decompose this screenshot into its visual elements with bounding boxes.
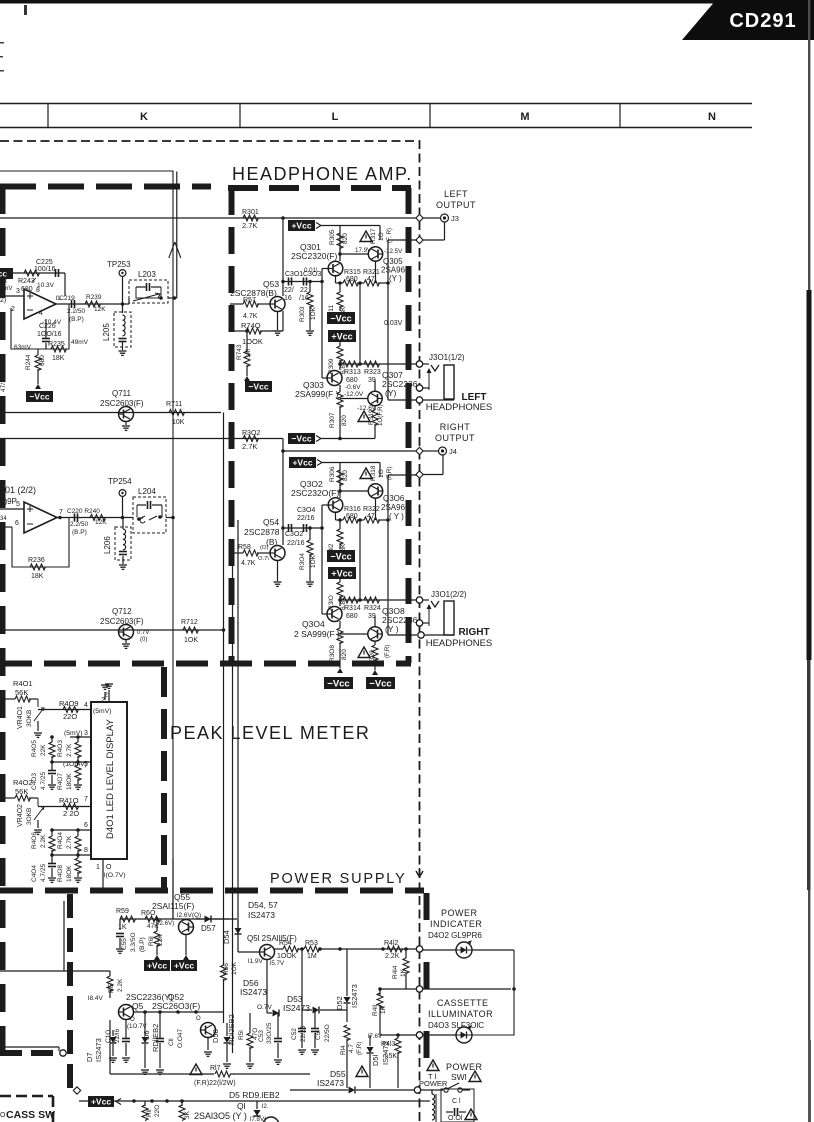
R740 resistor xyxy=(230,311,283,346)
svg-text:C l: C l xyxy=(452,1098,461,1105)
J301(2/2) label xyxy=(431,590,467,599)
svg-text:R236: R236 xyxy=(28,557,45,564)
R11 220 xyxy=(142,1101,161,1121)
svg-text:4.7K: 4.7K xyxy=(243,313,258,320)
R403 2.7K xyxy=(50,735,81,762)
J301(1/2) label xyxy=(429,353,465,362)
grid letter N xyxy=(708,111,716,123)
svg-text:R4l2: R4l2 xyxy=(384,940,399,947)
Q712 voltage 0.7V xyxy=(137,630,149,643)
voltage 0.01V xyxy=(304,267,318,274)
svg-text:R4O9: R4O9 xyxy=(59,699,79,708)
svg-text:Ql: Ql xyxy=(237,1101,246,1111)
svg-text:( Y ): ( Y ) xyxy=(389,512,404,521)
R324 39 xyxy=(364,597,381,620)
-Vcc box below R244 xyxy=(26,384,53,402)
grid tick 4 xyxy=(619,104,621,128)
svg-text:22O: 22O xyxy=(63,712,77,721)
voltage 0.03V xyxy=(384,320,403,327)
svg-text:22: 22 xyxy=(300,287,308,294)
svg-text:LEFT: LEFT xyxy=(444,189,468,199)
bottom left tick xyxy=(0,1112,6,1119)
R711 resistor xyxy=(166,401,185,426)
R12 3K xyxy=(179,1101,191,1121)
Q304 transistor xyxy=(327,600,342,622)
power border circle C xyxy=(416,1032,422,1038)
op-amp2 output wire xyxy=(57,516,133,520)
Q5 labels xyxy=(126,992,200,1011)
L204 capacitor xyxy=(137,501,162,518)
svg-text:0.7V: 0.7V xyxy=(137,630,149,636)
op-amp pin 8 label xyxy=(36,287,40,294)
svg-text:680: 680 xyxy=(346,377,358,384)
svg-text:47/16 1.5K: 47/16 1.5K xyxy=(0,360,7,392)
grid tick 2 xyxy=(239,104,241,128)
svg-text:1O: 1O xyxy=(378,469,385,478)
C304 C302 labels xyxy=(285,507,315,547)
R239 resistor xyxy=(85,294,106,313)
svg-text:Q712: Q712 xyxy=(112,607,132,616)
R712 node xyxy=(222,628,226,632)
warning triangle R318 xyxy=(360,468,372,479)
svg-text:1O: 1O xyxy=(378,232,385,241)
LED D403 xyxy=(423,1026,472,1043)
svg-text:22O: 22O xyxy=(154,1105,161,1117)
C225 capacitor xyxy=(34,259,59,277)
svg-text:POWER SUPPLY: POWER SUPPLY xyxy=(270,871,407,887)
left edge label n2 xyxy=(0,774,4,781)
svg-text:TP254: TP254 xyxy=(108,477,132,486)
C301 capacitor xyxy=(289,278,292,286)
svg-text:C3O1: C3O1 xyxy=(285,271,303,278)
svg-text:1OK: 1OK xyxy=(184,637,198,644)
svg-text:POWER: POWER xyxy=(419,1079,448,1088)
Q51 transistor xyxy=(238,935,275,1013)
svg-text:C53: C53 xyxy=(258,1030,265,1042)
right channel input wire (R302) xyxy=(0,438,283,440)
T1 transformer coil xyxy=(432,1090,436,1122)
D401 label xyxy=(105,718,116,839)
svg-text:R4O7: R4O7 xyxy=(57,773,64,790)
Q1 2SA1305 labels xyxy=(194,1101,247,1121)
op-amp IC201b feedback loop xyxy=(12,518,69,568)
Q306 transistor xyxy=(368,484,382,498)
C11 0.047 xyxy=(156,1012,184,1068)
svg-text:R239: R239 xyxy=(86,294,102,301)
R302 resistor xyxy=(242,430,260,451)
svg-text:D54, 57: D54, 57 xyxy=(248,900,278,910)
R57 resistor xyxy=(230,297,270,320)
C219 capacitor xyxy=(56,295,85,323)
svg-text:22/5O: 22/5O xyxy=(324,1024,331,1042)
svg-text:D4O1 LED LEVEL DISPLAY: D4O1 LED LEVEL DISPLAY xyxy=(105,718,116,839)
left OUTPUT node diamond xyxy=(416,214,423,221)
svg-text:RIGHT: RIGHT xyxy=(440,422,471,432)
svg-text:680: 680 xyxy=(346,513,358,520)
svg-text:L203: L203 xyxy=(138,270,156,279)
svg-text:L204: L204 xyxy=(138,487,156,496)
wire to J4 xyxy=(423,450,438,452)
Q53 transistor xyxy=(270,297,285,312)
svg-text:POWER: POWER xyxy=(446,1062,483,1072)
C403 4.7/25 xyxy=(31,762,56,790)
+Vcc box bottom xyxy=(88,1096,121,1107)
svg-text:(O): (O) xyxy=(260,545,268,551)
svg-text:2.2K: 2.2K xyxy=(40,834,47,848)
TP253 test point xyxy=(107,260,131,304)
Q301 labels xyxy=(291,242,337,261)
Q302 labels xyxy=(291,479,339,498)
svg-text:2SC2878: 2SC2878 xyxy=(244,527,280,537)
svg-text:IS2473: IS2473 xyxy=(283,1003,310,1013)
svg-text:J3: J3 xyxy=(451,214,459,223)
L203 dashed box xyxy=(129,280,168,303)
svg-text:820: 820 xyxy=(341,415,348,426)
svg-text:D58: D58 xyxy=(211,1029,220,1043)
op-amp IC201a triangle xyxy=(24,289,56,319)
J301(1/2) connector circle bottom xyxy=(388,397,454,403)
R51 470 xyxy=(238,1013,259,1062)
R316 R322 labels xyxy=(344,506,380,520)
voltage 17.8V bottom xyxy=(250,1116,267,1122)
voltage label 63mV xyxy=(14,344,32,351)
svg-text:3K: 3K xyxy=(184,1110,191,1119)
power rail wire under D401 xyxy=(172,859,174,919)
svg-text:L205: L205 xyxy=(102,323,111,341)
svg-text:4: 4 xyxy=(39,310,43,317)
R309 6.8K xyxy=(328,342,347,374)
svg-text:6: 6 xyxy=(84,822,88,829)
voltage -0.6V xyxy=(345,384,361,391)
R15 2.2K xyxy=(107,971,124,998)
CASS SW box dashed top edge xyxy=(0,1095,53,1098)
C53 330/25 right xyxy=(258,1013,282,1058)
svg-text:5: 5 xyxy=(16,501,20,508)
+Vcc box power B xyxy=(171,955,197,971)
svg-text:−Vcc: −Vcc xyxy=(327,679,349,690)
svg-text:2: 2 xyxy=(11,306,15,313)
svg-text:2SAl3O5 (Y ): 2SAl3O5 (Y ) xyxy=(194,1111,247,1121)
+Vcc box power A xyxy=(144,955,170,971)
svg-text:C1O: C1O xyxy=(105,1030,112,1043)
svg-text:R74O: R74O xyxy=(241,321,261,330)
svg-text:(F.R)22(l/2W): (F.R)22(l/2W) xyxy=(194,1080,236,1087)
svg-text:D5l: D5l xyxy=(371,1054,380,1066)
grid tick 3 xyxy=(429,104,431,128)
left audio block heavy dashed left edge xyxy=(0,186,6,1050)
voltage (10.7V xyxy=(127,1017,147,1030)
R407 180K xyxy=(57,762,82,790)
L203 label xyxy=(138,270,156,279)
R53 1M xyxy=(297,940,320,960)
L204 dashed box xyxy=(133,497,166,533)
svg-text:R4O2: R4O2 xyxy=(13,778,33,787)
R61 22K xyxy=(148,917,164,955)
svg-text:R4O1: R4O1 xyxy=(13,679,33,688)
HEADPHONE AMP. title xyxy=(232,164,413,184)
Q55 transistor xyxy=(179,920,194,935)
pin6 label xyxy=(50,822,91,832)
R308 820 vertical xyxy=(329,621,348,668)
L206 dashed box xyxy=(115,527,131,560)
R58 resistor xyxy=(230,544,270,567)
D5 wire xyxy=(79,1100,430,1102)
svg-text:Q3O6: Q3O6 xyxy=(383,494,405,503)
Q711 feed vertical wire xyxy=(223,413,225,959)
svg-text:D4O2 GL9PR6: D4O2 GL9PR6 xyxy=(428,931,482,940)
voltage -12.6V xyxy=(357,405,377,412)
-Vcc box below R743 xyxy=(244,376,272,392)
D5 RD9.IEB2 label xyxy=(229,1090,280,1100)
power supply box heavy dashed top edge xyxy=(0,888,424,894)
svg-text:1OK: 1OK xyxy=(310,554,317,568)
D59 RD12EB2 xyxy=(224,1014,237,1062)
svg-text:Q711: Q711 xyxy=(112,389,132,398)
CASS SW label xyxy=(6,1109,55,1121)
Q5 cluster wires xyxy=(134,1010,223,1014)
svg-text:IS2473: IS2473 xyxy=(350,984,359,1008)
bottom rail wires xyxy=(132,1099,184,1103)
svg-text:22K: 22K xyxy=(40,744,47,756)
svg-text:-0.6V: -0.6V xyxy=(345,384,361,391)
voltage -12.0V xyxy=(344,391,364,398)
Q55 labels xyxy=(152,892,195,911)
D53 IS2473 xyxy=(283,949,347,1014)
svg-text:4.7/25: 4.7/25 xyxy=(40,864,47,882)
node R302/Q54 branch xyxy=(281,449,285,453)
Q306 labels xyxy=(381,494,410,521)
svg-text:CASSETTE: CASSETTE xyxy=(437,998,489,1008)
J4 lower diamond xyxy=(416,455,443,478)
wire into notch circle xyxy=(0,1047,59,1051)
L205 ground xyxy=(119,351,127,355)
svg-text:−Vcc: −Vcc xyxy=(248,382,268,392)
svg-text:O.O47: O.O47 xyxy=(177,1028,184,1048)
svg-text:R58: R58 xyxy=(238,544,251,551)
-Vcc arrow left xyxy=(337,668,343,673)
svg-text:l8.4V: l8.4V xyxy=(88,995,103,1002)
+Vcc box (cut at left edge) xyxy=(0,268,13,279)
svg-text:Rl7: Rl7 xyxy=(210,1065,221,1072)
svg-text:(5mV): (5mV) xyxy=(93,708,112,715)
L206 label xyxy=(103,536,112,554)
voltage 17.6V xyxy=(368,1033,383,1040)
L206 coil xyxy=(119,518,127,565)
svg-text:Q3O4: Q3O4 xyxy=(302,619,325,629)
svg-text:2: 2 xyxy=(0,774,4,781)
svg-text:R711: R711 xyxy=(166,401,182,408)
D56 IS2473 labels xyxy=(240,978,267,997)
power switch SW1 xyxy=(421,1083,470,1092)
Q306 output rail xyxy=(388,475,417,635)
J3 lower diamond xyxy=(416,222,445,244)
svg-text:34: 34 xyxy=(0,516,7,522)
svg-text:R4l4: R4l4 xyxy=(392,965,399,979)
Q302 collector-base wires xyxy=(320,489,368,614)
R56 10K xyxy=(221,958,239,1023)
svg-text:2 2O: 2 2O xyxy=(63,809,79,818)
power border circle A xyxy=(416,946,422,952)
svg-text:+Vcc: +Vcc xyxy=(291,221,311,231)
svg-text:1O(F,R): 1O(F,R) xyxy=(377,404,384,426)
pin2 ground xyxy=(101,685,109,704)
svg-text:HEADPHONES: HEADPHONES xyxy=(426,638,493,649)
-Vcc box left channel bottom xyxy=(288,433,321,444)
svg-text:7: 7 xyxy=(84,796,88,803)
svg-text:820: 820 xyxy=(342,470,349,481)
R408 180K xyxy=(57,855,82,882)
svg-text:Q54: Q54 xyxy=(263,517,279,527)
right channel signal rail jog xyxy=(282,439,284,452)
R323 39 xyxy=(364,361,381,384)
voltage 0.7V xyxy=(257,1004,272,1011)
svg-text:22/l6: 22/l6 xyxy=(114,1029,121,1043)
wire L203 to vertical bus xyxy=(129,296,177,304)
Q53 labels xyxy=(230,279,279,298)
Q58 transistor xyxy=(196,1016,216,1038)
T1 POWER label xyxy=(419,1072,448,1088)
+Vcc box left channel top xyxy=(288,220,321,231)
grid band bottom rule xyxy=(0,127,752,129)
Q54 labels xyxy=(244,517,280,547)
L206 ground xyxy=(119,565,127,569)
indicator loop wire xyxy=(423,950,516,1035)
R303 10K shunt xyxy=(299,282,317,331)
R240 resistor xyxy=(90,515,107,527)
svg-text:2SC2603(F): 2SC2603(F) xyxy=(100,399,144,408)
op-amp pin 4 label xyxy=(39,310,43,317)
svg-text:OUTPUT: OUTPUT xyxy=(435,433,475,443)
svg-text:R321: R321 xyxy=(363,269,380,276)
D401 display box xyxy=(91,702,127,859)
svg-text:R5l: R5l xyxy=(238,1030,245,1040)
svg-text:C3O2: C3O2 xyxy=(285,531,303,538)
L205 coil xyxy=(119,304,127,350)
J3 jack xyxy=(441,214,459,223)
svg-text:2): 2) xyxy=(0,297,6,304)
svg-text:R4O3: R4O3 xyxy=(57,740,64,757)
svg-text:2.7K: 2.7K xyxy=(242,442,257,451)
svg-text:HEADPHONE AMP.: HEADPHONE AMP. xyxy=(232,164,413,184)
Q53 emitter ground xyxy=(274,312,282,336)
warning triangle near C1 xyxy=(465,1109,477,1120)
wire to J3 xyxy=(423,217,440,219)
svg-text:R307: R307 xyxy=(329,412,336,428)
svg-text:C3O4: C3O4 xyxy=(297,507,315,514)
svg-text:5mV: 5mV xyxy=(0,286,12,292)
input pin label 3 xyxy=(16,288,20,295)
svg-text:K: K xyxy=(140,111,148,123)
R317 label xyxy=(370,228,393,244)
(5mV) pin3 label xyxy=(64,730,91,737)
svg-text:+Vcc: +Vcc xyxy=(174,961,194,971)
Q51 collector rail xyxy=(274,948,283,950)
R410 220 xyxy=(59,796,88,818)
svg-text:18OK: 18OK xyxy=(66,865,73,882)
D401 top ground pin xyxy=(104,684,113,702)
R411 1K xyxy=(372,987,387,1035)
svg-text:(B.P): (B.P) xyxy=(69,316,84,323)
+Vcc box mid right channel xyxy=(328,567,356,579)
Q307 transistor xyxy=(340,380,382,406)
power notch circle xyxy=(60,1050,66,1056)
J301(1/2) rail xyxy=(338,362,418,366)
peak level meter box heavy dashed right edge xyxy=(161,667,167,888)
power rail wire Q55 xyxy=(120,918,230,920)
Q54 base coupling wire xyxy=(281,526,322,530)
Q712 labels xyxy=(100,607,144,626)
svg-text:O: O xyxy=(0,527,5,533)
svg-text:22/16: 22/16 xyxy=(287,540,305,547)
voltage -12.5V xyxy=(384,248,403,255)
left block thin solid outline xyxy=(0,171,173,919)
svg-text:R303: R303 xyxy=(299,306,306,322)
svg-text:680: 680 xyxy=(346,613,358,620)
Q51 2SA labels xyxy=(247,934,297,965)
warning POWER SW1 labels xyxy=(427,1060,483,1082)
node at TP253 stem xyxy=(121,302,125,306)
headphone amp box heavy dashed left edge xyxy=(229,188,235,663)
POWER SUPPLY title xyxy=(270,871,407,887)
svg-text:8: 8 xyxy=(84,847,88,854)
svg-text:820: 820 xyxy=(341,649,348,660)
Q54 emitter ground xyxy=(274,561,282,587)
headphone amp box heavy dashed right edge xyxy=(406,188,412,663)
cassette illuminator feed wire xyxy=(380,1034,417,1036)
svg-text:18K: 18K xyxy=(31,573,44,580)
input label 55mV xyxy=(0,272,13,292)
svg-text:18OK: 18OK xyxy=(66,773,73,790)
svg-text:2.2/50: 2.2/50 xyxy=(70,521,88,528)
C404 4.7/25 xyxy=(31,855,56,882)
svg-text:TP253: TP253 xyxy=(107,260,131,269)
svg-text:1OOK: 1OOK xyxy=(277,953,297,960)
svg-text:4.7K: 4.7K xyxy=(241,560,256,567)
voltage label -10.4V xyxy=(42,319,62,326)
notch stub wire xyxy=(63,901,65,971)
svg-text:L206: L206 xyxy=(103,536,112,554)
D51 IS2473 xyxy=(367,1035,391,1088)
-Vcc box mid right channel xyxy=(327,550,355,562)
svg-text:8: 8 xyxy=(36,287,40,294)
svg-text:J3O1(2/2): J3O1(2/2) xyxy=(431,590,467,599)
-Vcc box left xyxy=(0,0,1,1)
svg-text:3: 3 xyxy=(84,730,88,737)
svg-text:R301: R301 xyxy=(242,209,259,216)
svg-text:l7.6V: l7.6V xyxy=(368,1033,383,1040)
svg-text:(F,R): (F,R) xyxy=(384,645,391,658)
R236 feedback resistor xyxy=(28,557,46,580)
svg-text:RIGHT: RIGHT xyxy=(458,627,489,638)
svg-text:(l2.6V): (l2.6V) xyxy=(156,920,174,927)
svg-text:O: O xyxy=(106,864,112,871)
svg-text:R3O4: R3O4 xyxy=(299,553,306,570)
svg-text:R59: R59 xyxy=(116,908,129,915)
power border circle D xyxy=(414,1087,420,1093)
(10mV) pin5 label xyxy=(50,760,91,768)
voltage 18.4V xyxy=(88,995,103,1002)
svg-text:22/: 22/ xyxy=(284,287,294,294)
Q711 labels xyxy=(100,389,144,408)
R743 1M vertical xyxy=(236,329,252,376)
R59 1K xyxy=(116,908,136,931)
svg-text:16: 16 xyxy=(284,295,292,302)
svg-text:CASS SW: CASS SW xyxy=(6,1109,55,1121)
L205 label xyxy=(102,323,111,341)
svg-text:(B.P): (B.P) xyxy=(139,937,146,952)
svg-text:Cll: Cll xyxy=(168,1038,175,1046)
left block vertical wire B xyxy=(237,520,239,935)
